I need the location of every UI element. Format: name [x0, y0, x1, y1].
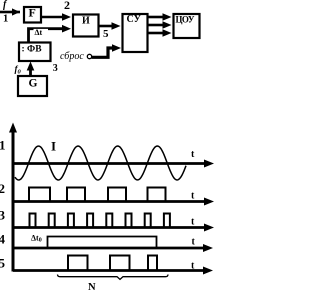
- row 3 pulses: [30, 214, 170, 228]
- label t row 5: [191, 261, 195, 272]
- svg-text:t: t: [191, 191, 195, 202]
- block SU (counter): [123, 14, 148, 52]
- row 5 time axis: [13, 267, 213, 275]
- svg-text:1: 1: [0, 138, 6, 153]
- svg-text:f: f: [3, 0, 8, 11]
- input wire fx: [0, 8, 20, 15]
- svg-text:СУ: СУ: [127, 14, 142, 25]
- row 5 pulses: [68, 256, 157, 271]
- svg-text:ЦОУ: ЦОУ: [176, 15, 195, 25]
- label I on sine: [51, 139, 56, 154]
- block FV (divider/gate former): [19, 43, 51, 62]
- svg-text:t: t: [191, 149, 195, 160]
- row 3 time axis: [13, 224, 214, 232]
- row 1 time axis: [13, 160, 214, 168]
- label f0: [15, 64, 22, 76]
- label N: [88, 282, 96, 293]
- brace under N pulses: [58, 275, 169, 280]
- label Delta-t0: [31, 234, 42, 244]
- wire F to AND gate: [41, 13, 71, 21]
- row label 4: [0, 232, 6, 247]
- row label 1: [0, 138, 6, 153]
- block TsOU (digital readout): [174, 14, 200, 38]
- label t row 2: [191, 191, 195, 202]
- svg-text:5: 5: [103, 28, 109, 40]
- bus SU to TsOU wire 3: [148, 29, 172, 37]
- bus SU to TsOU wire 1: [148, 13, 172, 21]
- svg-text:N: N: [88, 282, 96, 293]
- svg-text:F: F: [29, 6, 36, 20]
- row label 2: [0, 181, 5, 196]
- label f input: [3, 0, 8, 11]
- svg-text:И: И: [82, 16, 90, 27]
- node label 1: [3, 14, 8, 25]
- vertical time axis: [9, 123, 17, 272]
- node label 3: [53, 63, 58, 74]
- wire G to FV: [27, 62, 35, 76]
- svg-text:5: 5: [0, 256, 6, 271]
- svg-text:3: 3: [0, 208, 6, 223]
- row label 5: [0, 256, 6, 271]
- svg-text:1: 1: [3, 14, 8, 25]
- svg-text:t: t: [192, 237, 196, 248]
- svg-text:3: 3: [53, 63, 58, 74]
- sine waveform row 1: [15, 146, 186, 180]
- svg-text:t: t: [191, 217, 195, 228]
- label t row 4: [192, 237, 196, 248]
- row 2 pulses: [29, 188, 166, 202]
- node label 2: [64, 0, 70, 12]
- row label 3: [0, 208, 6, 223]
- svg-text:f0: f0: [15, 64, 22, 76]
- reset wire to SU: [92, 44, 122, 57]
- wire gate FV to AND: [29, 25, 72, 42]
- reset label (сброс): [60, 51, 84, 62]
- label t row 3: [191, 217, 195, 228]
- svg-text:: ФВ: : ФВ: [22, 45, 43, 55]
- bus SU to TsOU wire 2: [148, 21, 172, 29]
- gate pulse row 4: [48, 237, 157, 249]
- svg-text:G: G: [29, 78, 38, 90]
- label Delta-t on wire: [34, 28, 49, 37]
- svg-text:сброс: сброс: [60, 51, 84, 62]
- reset terminal circle: [87, 54, 91, 58]
- svg-text:2: 2: [0, 181, 5, 196]
- row 4 time axis: [13, 244, 213, 252]
- label t row 1: [191, 149, 195, 160]
- block F: [24, 6, 41, 23]
- svg-text:Δt: Δt: [35, 28, 43, 37]
- svg-text:I: I: [51, 139, 56, 154]
- svg-text:4: 4: [0, 232, 6, 247]
- svg-text:Δt0: Δt0: [31, 234, 42, 244]
- svg-text:2: 2: [64, 0, 70, 12]
- row 2 time axis: [13, 198, 214, 206]
- block AND (И): [73, 15, 99, 37]
- block G: [18, 76, 47, 96]
- node label 5: [103, 28, 109, 40]
- wire AND to SU: [99, 22, 121, 30]
